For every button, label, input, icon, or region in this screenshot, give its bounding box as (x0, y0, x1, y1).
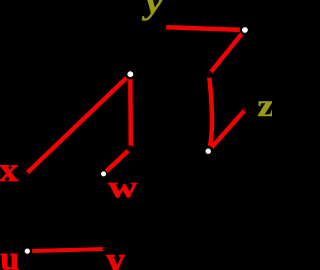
node w ring (100, 170, 108, 178)
svg-text:x: x (0, 151, 19, 188)
wire edge x-A (26, 74, 131, 174)
node v dark (103, 246, 109, 252)
node y dark (159, 24, 165, 30)
node x dark (23, 171, 29, 177)
node A ring (125, 69, 136, 80)
node C dot (206, 149, 211, 154)
node u dot (25, 249, 30, 254)
node u ring (22, 246, 32, 256)
node H1 dark (205, 71, 212, 78)
node B dot (242, 27, 248, 33)
wire edge y-B (166, 27, 245, 30)
svg-text:u: u (0, 241, 19, 270)
wire edge B-H1 (209, 30, 245, 74)
wire edge u-v (27, 249, 105, 251)
wire edge H2-w (104, 149, 130, 174)
wire edge H1-C curved (208, 74, 212, 151)
svg-text:w: w (108, 170, 137, 204)
node w dot (101, 171, 106, 176)
node A dot (127, 71, 133, 77)
svg-text:y: y (142, 0, 164, 21)
node H2 dark (127, 145, 134, 152)
svg-text:z: z (257, 88, 272, 123)
node B ring (240, 25, 250, 35)
node C ring (203, 146, 214, 157)
wire edge A-H2 vertical (128, 74, 133, 147)
wire edge z-C (208, 109, 246, 151)
svg-text:v: v (106, 240, 125, 270)
node z dark (243, 106, 249, 112)
